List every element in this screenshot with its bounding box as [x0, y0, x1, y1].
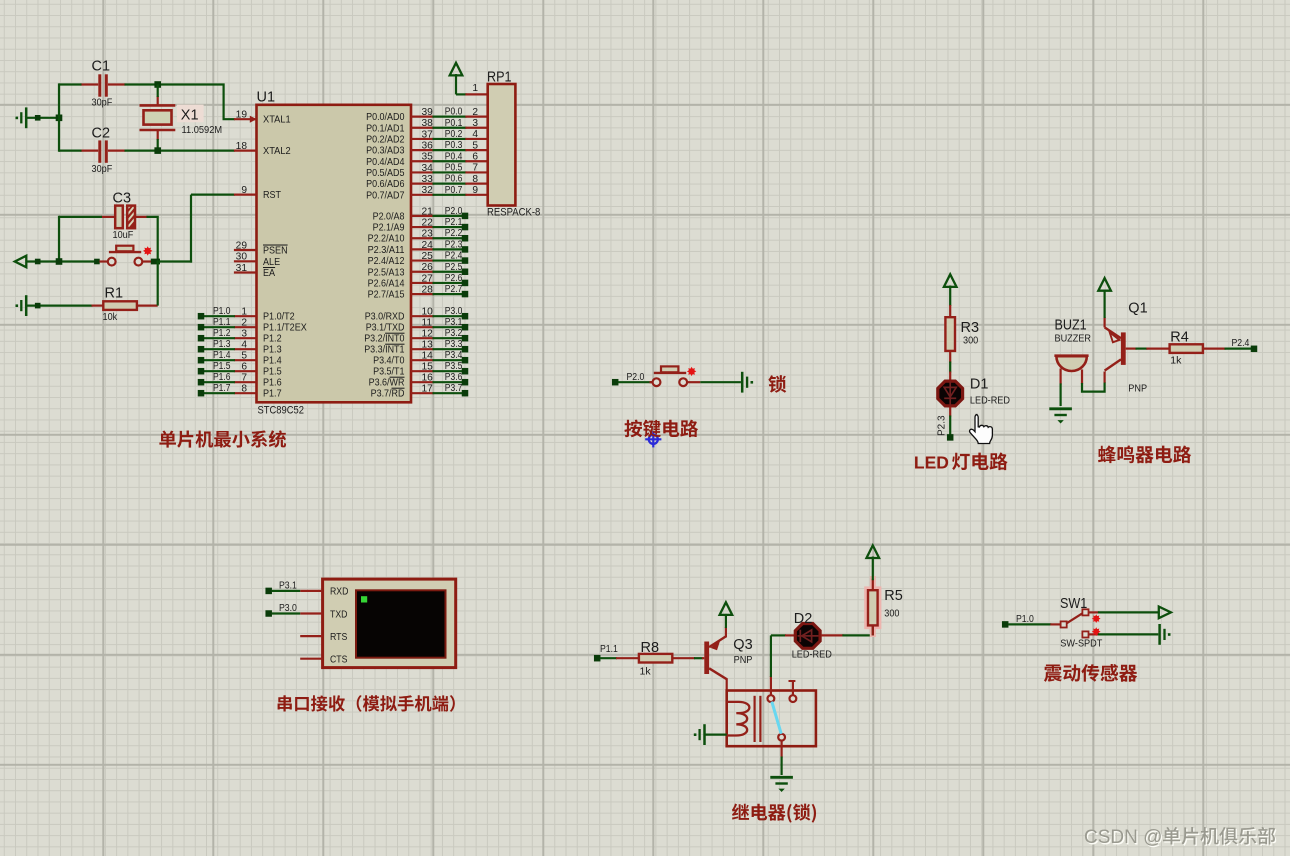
- terminal P2.2: [462, 235, 469, 242]
- svg-text:23: 23: [422, 229, 434, 240]
- svg-text:7: 7: [241, 373, 247, 384]
- terminal P3.4: [462, 357, 469, 364]
- wire C3 left: [59, 216, 102, 218]
- U1 pin 38 P0.1/AD1: [411, 127, 434, 129]
- svg-text:P3.1/TXD: P3.1/TXD: [366, 323, 405, 334]
- RP1 pin 7: [465, 171, 487, 173]
- wire P1.1 to R8: [600, 657, 617, 659]
- terminal P2.3: [462, 246, 469, 253]
- terminal P3.0: [265, 610, 272, 617]
- svg-text:P2.4/A12: P2.4/A12: [368, 256, 405, 267]
- svg-text:RESPACK-8: RESPACK-8: [487, 207, 540, 219]
- svg-text:21: 21: [422, 206, 434, 217]
- U1 pin 7 P1.6: [234, 381, 257, 383]
- svg-text:18: 18: [236, 141, 248, 152]
- wire button to RST vertical: [159, 260, 192, 262]
- svg-text:P3.6/WR: P3.6/WR: [369, 378, 405, 389]
- LED D1: [949, 372, 951, 382]
- svg-text:Q1: Q1: [1128, 300, 1147, 316]
- resistor R8: [616, 657, 639, 659]
- U1 pin 10 P3.0/RXD: [411, 315, 434, 317]
- terminal P1.4: [198, 357, 205, 364]
- power terminal above R5: [867, 545, 880, 558]
- buzzer BUZ1 pins: [1059, 369, 1061, 385]
- wire vertical C1-C2: [58, 83, 60, 151]
- virtual terminal screen: [356, 590, 446, 657]
- wire net P2.0 stub: [433, 215, 463, 217]
- U1 pin 23 P2.2/A10: [411, 237, 434, 239]
- U1 pin 6 P1.5: [234, 370, 257, 372]
- svg-text:U1: U1: [257, 90, 276, 106]
- terminal P3.6: [462, 379, 469, 386]
- svg-text:29: 29: [236, 240, 248, 251]
- relay contact NC: [790, 695, 797, 702]
- switch SW1 marker stars: [1092, 614, 1101, 623]
- wire net P1.7 to U1 pin 8: [204, 392, 235, 394]
- svg-text:P1.1: P1.1: [600, 644, 618, 655]
- svg-text:10uF: 10uF: [113, 229, 134, 241]
- wire net P2.5 stub: [433, 271, 463, 273]
- svg-text:P3.3: P3.3: [445, 339, 463, 350]
- capacitor C2: [98, 140, 101, 162]
- junction X1 bottom: [154, 147, 161, 154]
- ground G2 at R1: [25, 295, 28, 316]
- svg-text:P0.5/AD5: P0.5/AD5: [366, 168, 405, 179]
- svg-text:D2: D2: [794, 611, 813, 627]
- svg-text:P0.6/AD6: P0.6/AD6: [366, 179, 405, 190]
- svg-text:12: 12: [422, 329, 434, 340]
- U1 pin 34 P0.5/AD5: [411, 171, 434, 173]
- svg-text:32: 32: [422, 185, 434, 196]
- power terminal above R3: [944, 274, 957, 287]
- svg-text:37: 37: [422, 129, 434, 140]
- wire Q1 base to R4: [1126, 348, 1137, 350]
- wire P3.1 to RXD: [272, 590, 300, 592]
- svg-text:30pF: 30pF: [92, 97, 113, 109]
- svg-text:P2.1/A9: P2.1/A9: [373, 223, 405, 234]
- mouse cursor: [970, 415, 993, 444]
- svg-text:17: 17: [422, 384, 434, 395]
- power terminal above Q1: [1098, 278, 1111, 291]
- power terminal above Q3: [720, 602, 733, 615]
- wire net P3.7 stub: [433, 392, 463, 394]
- svg-text:LED-RED: LED-RED: [792, 649, 832, 661]
- terminal P1.6: [198, 379, 205, 386]
- svg-text:P3.7: P3.7: [445, 383, 463, 394]
- wire P1.0 to SW1: [1008, 623, 1051, 625]
- svg-text:8: 8: [241, 384, 247, 395]
- label 灯电路 (after LED): [952, 453, 1007, 471]
- virtual terminal body: [323, 579, 456, 668]
- svg-text:BUZ1: BUZ1: [1055, 317, 1087, 333]
- U1 pin 31 EA: [234, 271, 257, 273]
- svg-text:P2.6: P2.6: [445, 273, 463, 284]
- resistor R3: [949, 305, 951, 317]
- svg-text:ALE: ALE: [263, 257, 280, 268]
- wire net P1.4 to U1 pin 5: [204, 359, 235, 361]
- svg-text:PNP: PNP: [734, 654, 753, 666]
- svg-text:300: 300: [963, 335, 978, 347]
- svg-text:P3.0/RXD: P3.0/RXD: [365, 312, 405, 323]
- svg-text:P1.4: P1.4: [213, 350, 231, 361]
- svg-text:10: 10: [422, 307, 434, 318]
- svg-text:15: 15: [422, 362, 434, 373]
- LED D2: [785, 634, 795, 636]
- svg-text:SW-SPDT: SW-SPDT: [1060, 638, 1103, 650]
- svg-text:P2.2: P2.2: [445, 228, 463, 239]
- resistor R1: [92, 305, 104, 307]
- svg-text:P1.0: P1.0: [213, 306, 231, 317]
- svg-text:XTAL2: XTAL2: [263, 146, 291, 157]
- U1 pin 15 P3.5/T1: [411, 370, 434, 372]
- U1 pin 33 P0.6/AD6: [411, 183, 434, 185]
- svg-text:R8: R8: [641, 640, 660, 656]
- svg-text:P3.7/RD: P3.7/RD: [371, 389, 405, 400]
- svg-text:P3.4/T0: P3.4/T0: [373, 356, 405, 367]
- junction reset row / C3 branch: [56, 258, 63, 265]
- virtual terminal cursor: [361, 596, 367, 602]
- U1 pin 35 P0.4/AD4: [411, 160, 434, 162]
- terminal P3.1: [462, 324, 469, 331]
- wire net P2.6 stub: [433, 282, 463, 284]
- label 震动传感器: [1044, 664, 1137, 682]
- terminal P1.5: [198, 368, 205, 375]
- terminal P3.3: [462, 346, 469, 353]
- svg-text:1k: 1k: [640, 666, 652, 678]
- button lock actuator star: [687, 367, 696, 376]
- wire net P2.2 stub: [433, 237, 463, 239]
- svg-text:C3: C3: [113, 191, 132, 207]
- svg-text:P0.4: P0.4: [445, 151, 463, 162]
- button RESET actuator star: [143, 246, 152, 255]
- svg-text:P1.1: P1.1: [213, 317, 231, 328]
- wire net P0.1 U1 to RP1: [433, 127, 467, 129]
- wire Q3 collector down: [726, 678, 728, 690]
- svg-text:34: 34: [422, 163, 434, 174]
- wire BUZ1 right to Q1 collector: [1082, 382, 1105, 392]
- relay NC stub: [792, 681, 794, 695]
- terminal P1.0: [198, 313, 205, 320]
- svg-text:P1.6: P1.6: [263, 378, 282, 389]
- U1 pin 30 ALE: [234, 260, 257, 262]
- relay contact common: [778, 734, 785, 741]
- svg-text:P2.5: P2.5: [445, 262, 463, 273]
- wire net P1.3 to U1 pin 4: [204, 348, 235, 350]
- svg-text:30pF: 30pF: [92, 163, 113, 175]
- U1 pin 39 P0.0/AD0: [411, 115, 434, 117]
- crystal X1 label highlight: [177, 105, 204, 123]
- switch SW1 (SW-SPDT): [1050, 623, 1060, 625]
- U1 pin 8 P1.7: [234, 392, 257, 394]
- svg-text:P3.0: P3.0: [279, 603, 297, 614]
- svg-text:P0.7: P0.7: [445, 185, 463, 196]
- wire R8 to Q3 base: [694, 657, 703, 659]
- terminal P3.1: [265, 588, 272, 595]
- U1 pin 11 P3.1/TXD: [411, 326, 434, 328]
- svg-text:P2.4: P2.4: [445, 251, 463, 262]
- svg-text:8: 8: [472, 174, 478, 185]
- svg-text:P2.7: P2.7: [445, 284, 463, 295]
- label 继电器(锁): [732, 803, 816, 822]
- svg-text:RXD: RXD: [330, 587, 348, 598]
- svg-text:P2.0: P2.0: [445, 206, 463, 217]
- svg-text:4: 4: [472, 129, 478, 140]
- junction X1 top: [154, 81, 161, 88]
- U1 pin 22 P2.1/A9: [411, 226, 434, 228]
- RP1 pin 3: [465, 127, 487, 129]
- RP1 pin 8: [465, 183, 487, 185]
- terminal P2.0: [462, 213, 469, 220]
- svg-text:C1: C1: [92, 59, 111, 75]
- wire C1 to corner to XTAL1: [125, 85, 235, 120]
- svg-text:2: 2: [472, 107, 478, 118]
- svg-text:P3.5/T1: P3.5/T1: [373, 367, 405, 378]
- svg-text:P1.5: P1.5: [213, 361, 231, 372]
- ground below BUZ1: [1049, 407, 1072, 410]
- svg-text:300: 300: [884, 608, 899, 620]
- ground terminal right of SW1: [1158, 624, 1161, 645]
- wire relay NO up to D2 row: [770, 676, 772, 695]
- svg-text:9: 9: [241, 185, 247, 196]
- U1 pin 32 P0.7/AD7: [411, 194, 434, 196]
- terminal P3.7: [462, 390, 469, 397]
- svg-text:P2.2/A10: P2.2/A10: [368, 234, 405, 245]
- svg-text:CTS: CTS: [330, 655, 348, 666]
- svg-text:BUZZER: BUZZER: [1055, 332, 1092, 344]
- svg-text:P1.3: P1.3: [263, 345, 282, 356]
- svg-text:P1.0/T2: P1.0/T2: [263, 312, 295, 323]
- RP1 pin 9: [465, 194, 487, 196]
- svg-text:P0.4/AD4: P0.4/AD4: [366, 157, 405, 168]
- terminal P1.1: [198, 324, 205, 331]
- svg-text:30: 30: [236, 252, 248, 263]
- svg-text:CSDN @: CSDN @: [1084, 827, 1162, 848]
- svg-text:P0.0/AD0: P0.0/AD0: [366, 112, 405, 123]
- svg-text:P1.1/T2EX: P1.1/T2EX: [263, 323, 307, 334]
- svg-text:P2.3/A11: P2.3/A11: [368, 245, 405, 256]
- U1 pin 3 P1.2: [234, 337, 257, 339]
- wire ground to R1: [27, 305, 93, 307]
- svg-text:25: 25: [422, 251, 434, 262]
- resistor R4: [1146, 348, 1169, 350]
- crystal X1: [140, 104, 176, 107]
- svg-text:P0.3/AD3: P0.3/AD3: [366, 146, 405, 157]
- wire net P0.7 U1 to RP1: [433, 194, 467, 196]
- wire net P0.3 U1 to RP1: [433, 149, 467, 151]
- wire Q1 emitter to power: [1103, 290, 1105, 319]
- power terminal above RP1: [450, 63, 463, 76]
- svg-text:P2.1: P2.1: [445, 217, 463, 228]
- svg-text:1k: 1k: [1170, 355, 1182, 367]
- svg-text:36: 36: [422, 141, 434, 152]
- svg-text:P0.7/AD7: P0.7/AD7: [366, 190, 405, 201]
- terminal pin RTS: [300, 635, 322, 637]
- wire net P1.0 to U1 pin 1: [204, 315, 235, 317]
- ground terminal right of button: [741, 372, 744, 393]
- svg-text:11.0592M: 11.0592M: [182, 124, 223, 136]
- svg-text:26: 26: [422, 262, 434, 273]
- wire net P2.4 stub: [433, 259, 463, 261]
- svg-text:P3.1: P3.1: [445, 317, 463, 328]
- svg-text:1: 1: [472, 83, 478, 94]
- wire C2 to XTAL2: [125, 150, 235, 152]
- transistor Q1 (PNP): [1121, 332, 1126, 365]
- svg-text:P3.2/INT0: P3.2/INT0: [364, 334, 405, 345]
- U1 pin 24 P2.3/A11: [411, 248, 434, 250]
- svg-text:39: 39: [422, 107, 434, 118]
- wire net P3.2 stub: [433, 337, 463, 339]
- svg-text:P3.6: P3.6: [445, 372, 463, 383]
- push-button lock (锁): [653, 378, 661, 386]
- svg-text:STC89C52: STC89C52: [258, 405, 305, 417]
- U1 pin 5 P1.4: [234, 359, 257, 361]
- svg-text:PSEN: PSEN: [263, 246, 288, 257]
- svg-text:6: 6: [472, 151, 478, 162]
- pin square G2: [35, 303, 41, 309]
- wire C2 left to vertical: [59, 150, 82, 152]
- svg-text:P0.2/AD2: P0.2/AD2: [366, 134, 405, 145]
- svg-text:27: 27: [422, 273, 434, 284]
- terminal P1.3: [198, 346, 205, 353]
- svg-text:P2.7/A15: P2.7/A15: [368, 290, 405, 301]
- svg-text:P1.5: P1.5: [263, 367, 282, 378]
- terminal pin TXD: [300, 612, 322, 614]
- svg-text:P1.7: P1.7: [263, 389, 282, 400]
- RP1 pin 5: [465, 149, 487, 151]
- svg-text:5: 5: [472, 140, 478, 151]
- U1 pin 2 P1.1/T2EX: [234, 326, 257, 328]
- svg-text:P0.2: P0.2: [445, 129, 463, 140]
- wire net P1.2 to U1 pin 3: [204, 337, 235, 339]
- wire SW1 throw2 to ground: [1098, 633, 1158, 635]
- terminal P2.4: [1251, 346, 1258, 353]
- terminal P1.0: [1002, 621, 1009, 628]
- ground left of relay: [703, 724, 706, 745]
- wire D2 to R5: [842, 634, 872, 636]
- U1 XTAL1 clock arrow: [250, 116, 257, 123]
- power terminal left-pointing at reset row: [15, 256, 26, 268]
- ground below relay: [770, 776, 793, 779]
- U1 pin 19 XTAL1: [234, 118, 257, 120]
- svg-text:4: 4: [241, 340, 247, 351]
- RP1 pin 6: [465, 160, 487, 162]
- svg-text:5: 5: [241, 351, 247, 362]
- svg-text:P3.4: P3.4: [445, 350, 463, 361]
- terminal P1.7: [198, 390, 205, 397]
- svg-text:P0.3: P0.3: [445, 140, 463, 151]
- wire net P3.0 stub: [433, 315, 463, 317]
- svg-text:P0.6: P0.6: [445, 174, 463, 185]
- output terminal arrow: [1159, 607, 1171, 619]
- U1 pin 21 P2.0/A8: [411, 215, 434, 217]
- svg-text:P1.7: P1.7: [213, 383, 231, 394]
- terminal P2.6: [462, 280, 469, 287]
- wire net P3.3 stub: [433, 348, 463, 350]
- junction G1 vertical: [56, 115, 63, 122]
- svg-text:P1.4: P1.4: [263, 356, 282, 367]
- U1 pin 1 P1.0/T2: [234, 315, 257, 317]
- svg-text:28: 28: [422, 284, 434, 295]
- svg-text:P1.2: P1.2: [263, 334, 282, 345]
- pin square button left: [94, 259, 100, 265]
- origin marker (blue): [645, 431, 661, 447]
- svg-text:P0.1/AD1: P0.1/AD1: [366, 123, 405, 134]
- label 单片机最小系统: [159, 430, 286, 447]
- wire reset row left: [26, 260, 97, 262]
- U1 pin 16 P3.6/WR: [411, 381, 434, 383]
- svg-text:24: 24: [422, 240, 434, 251]
- svg-text:RST: RST: [263, 190, 282, 201]
- buzzer BUZ1 body: [1056, 356, 1086, 371]
- svg-text:7: 7: [472, 163, 478, 174]
- svg-text:31: 31: [236, 263, 248, 274]
- capacitor C1: [98, 74, 101, 96]
- wire net P3.5 stub: [433, 370, 463, 372]
- svg-text:P1.2: P1.2: [213, 328, 231, 339]
- wire net P0.0 U1 to RP1: [433, 115, 467, 117]
- relay contact NO: [768, 695, 775, 702]
- label 锁: [768, 375, 786, 393]
- U1 pin 18 XTAL2: [234, 150, 257, 152]
- U1 pin 28 P2.7/A15: [411, 293, 434, 295]
- svg-text:C2: C2: [92, 126, 111, 142]
- terminal P1.2: [198, 335, 205, 342]
- wire net P0.5 U1 to RP1: [433, 171, 467, 173]
- U1 pin 27 P2.6/A14: [411, 282, 434, 284]
- svg-text:P1.6: P1.6: [213, 372, 231, 383]
- terminal P2.4: [462, 257, 469, 264]
- svg-text:LED: LED: [914, 452, 949, 472]
- relay RL body: [727, 691, 816, 747]
- svg-text:33: 33: [422, 174, 434, 185]
- wire net P3.4 stub: [433, 359, 463, 361]
- svg-text:XTAL1: XTAL1: [263, 115, 291, 126]
- svg-text:EA: EA: [263, 268, 275, 279]
- label 蜂鸣器电路: [1098, 446, 1191, 464]
- wire ground G1 to vertical: [27, 117, 60, 119]
- wire net P3.6 stub: [433, 381, 463, 383]
- svg-text:1: 1: [241, 307, 247, 318]
- push-button RESET: [108, 258, 116, 266]
- wire net P0.2 U1 to RP1: [433, 138, 467, 140]
- svg-text:Q3: Q3: [733, 637, 752, 653]
- svg-text:P2.3: P2.3: [936, 415, 947, 436]
- terminal P2.1: [462, 224, 469, 231]
- svg-text:P2.5/A13: P2.5/A13: [368, 267, 405, 278]
- terminal P2.7: [462, 291, 469, 298]
- terminal P2.5: [462, 269, 469, 276]
- terminal pin CTS: [300, 658, 322, 660]
- svg-text:RTS: RTS: [330, 632, 348, 643]
- svg-text:35: 35: [422, 152, 434, 163]
- wire ground to relay coil: [705, 733, 727, 735]
- svg-text:X1: X1: [181, 108, 199, 124]
- wire net P0.6 U1 to RP1: [433, 183, 467, 185]
- RP1 pin 2: [465, 115, 487, 117]
- wire net P2.3 stub: [433, 248, 463, 250]
- svg-text:11: 11: [422, 318, 433, 329]
- resistor R5 (highlighted): [866, 588, 880, 628]
- svg-text:R4: R4: [1170, 329, 1189, 345]
- wire C3 right corner down: [147, 217, 158, 262]
- wire R4 to terminal P2.4: [1225, 348, 1252, 350]
- U1 pin 26 P2.5/A13: [411, 271, 434, 273]
- svg-text:19: 19: [236, 110, 248, 121]
- svg-text:P0.0: P0.0: [445, 107, 463, 118]
- capacitor C3 (polarized 10uF): [115, 206, 123, 229]
- svg-text:16: 16: [422, 373, 434, 384]
- label 按键电路: [624, 420, 698, 438]
